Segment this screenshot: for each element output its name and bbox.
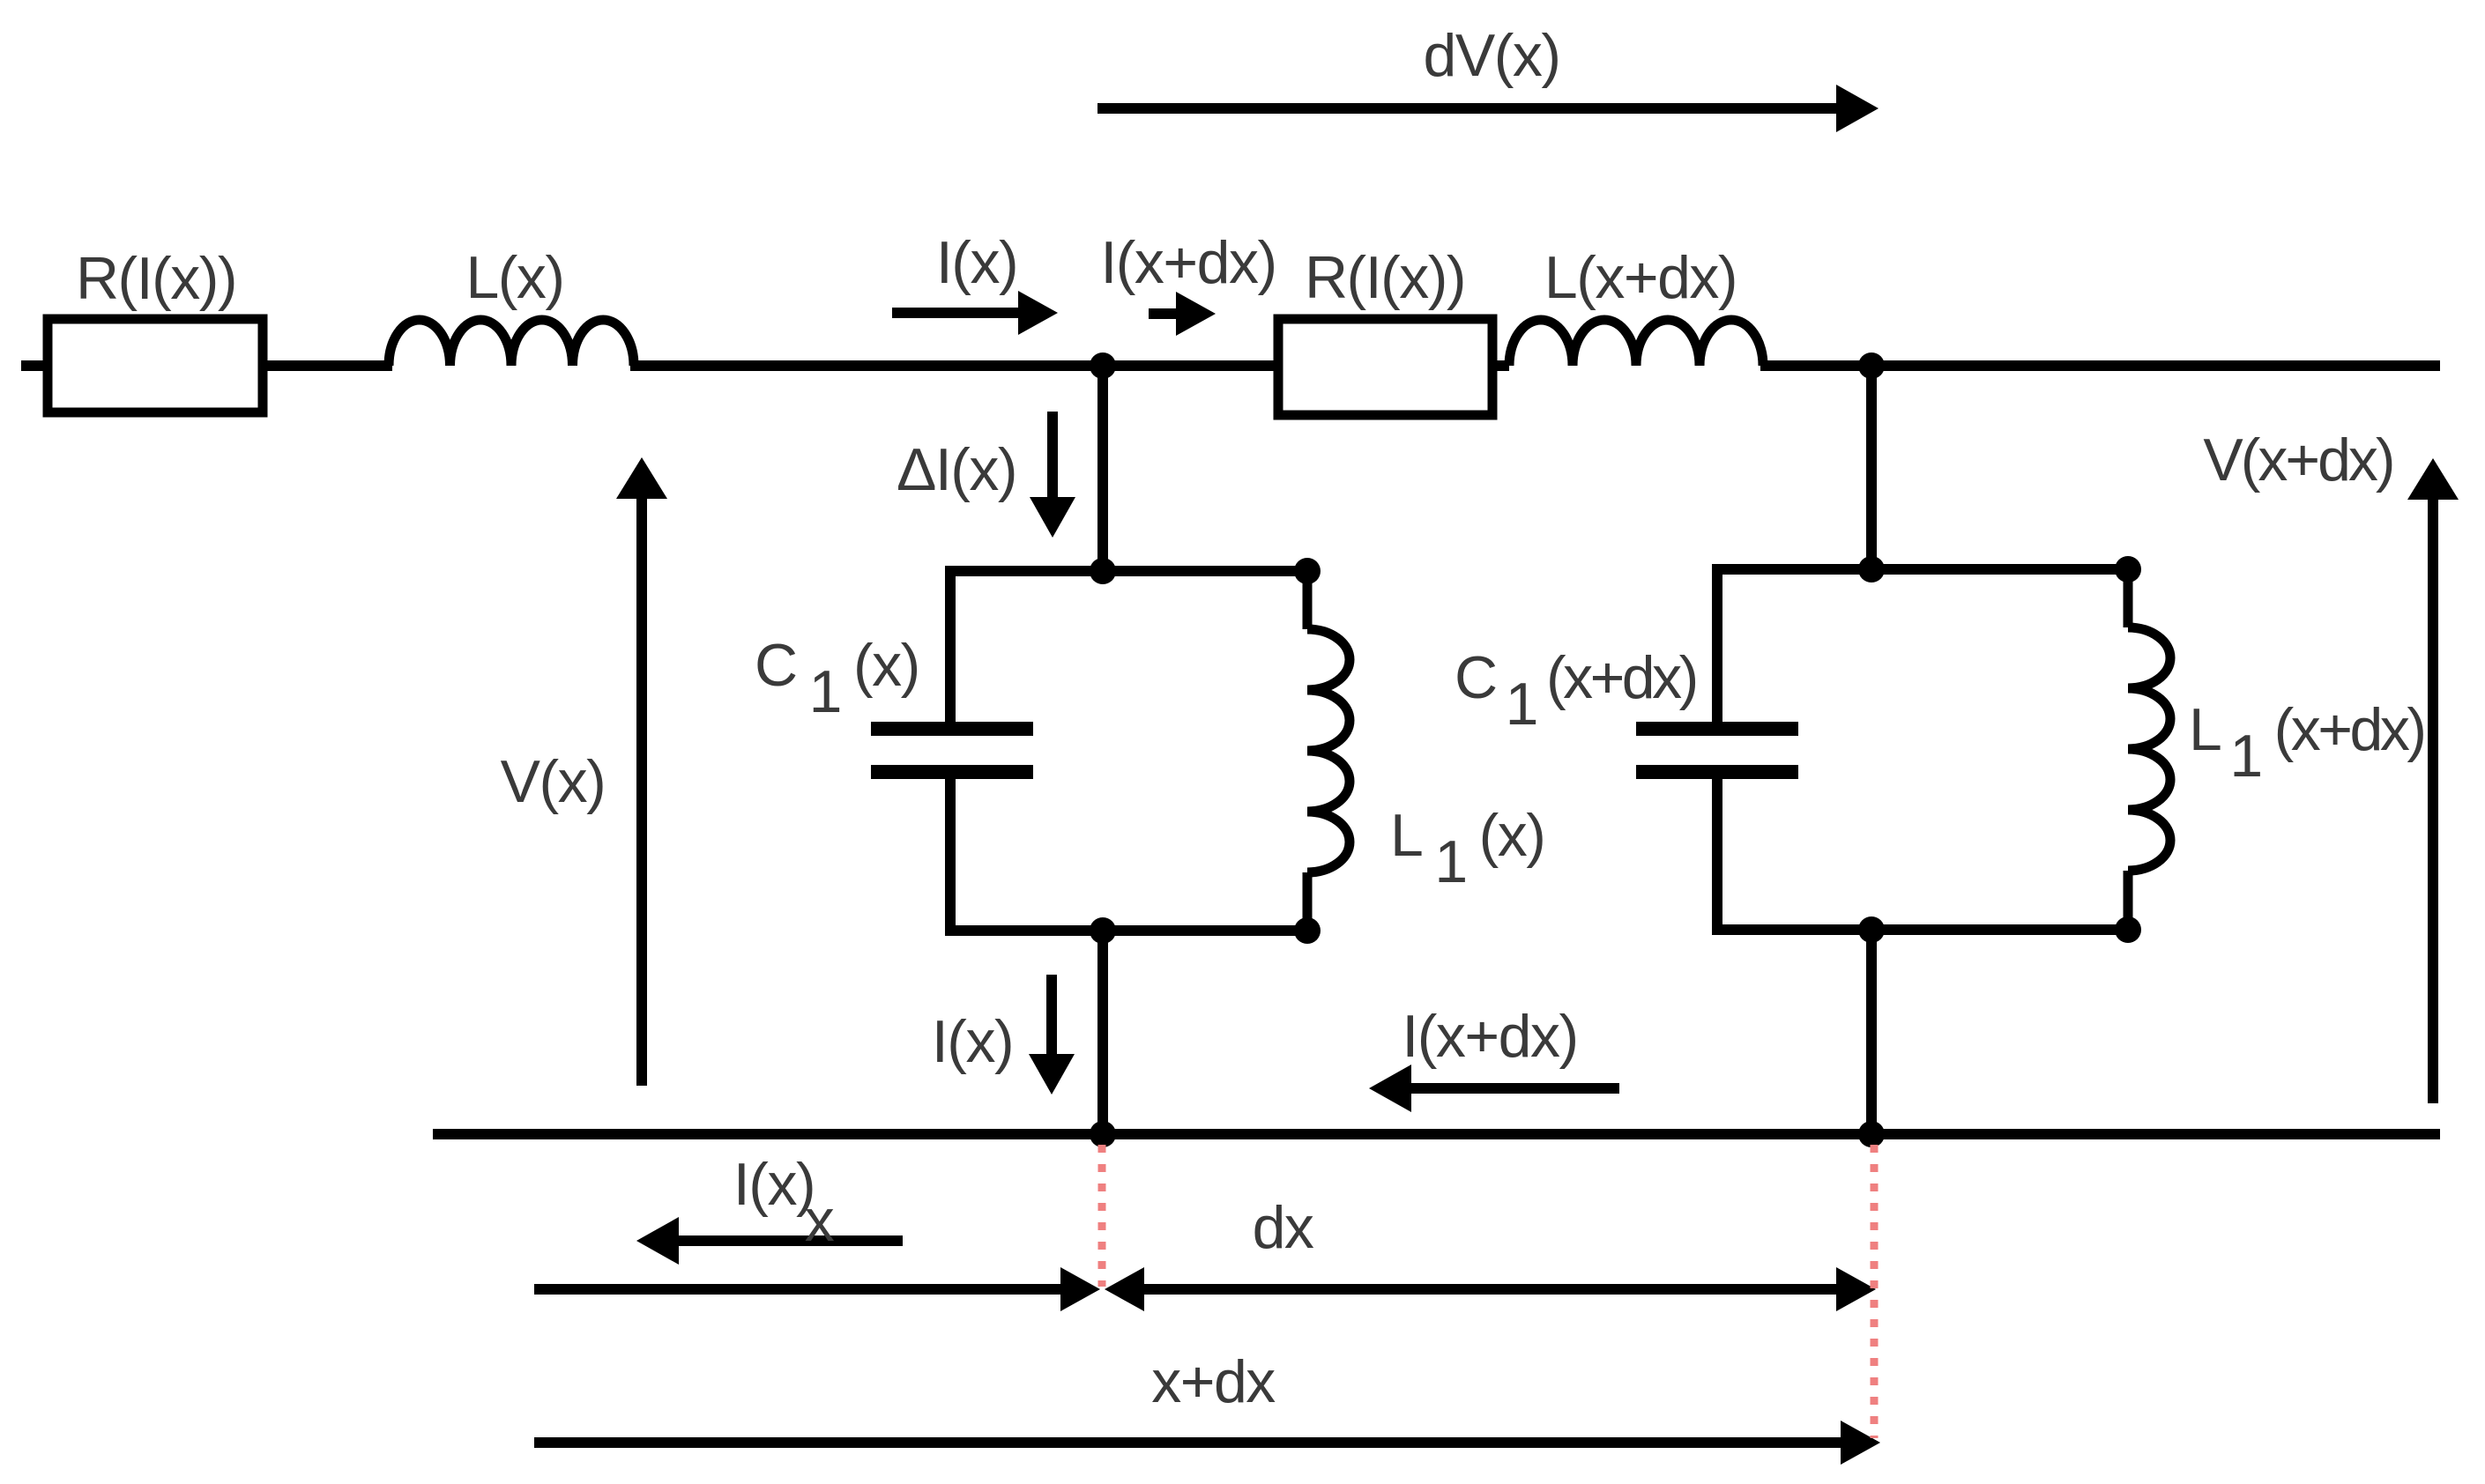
node tank1 top feed bbox=[1090, 558, 1116, 584]
arrow I(x) bottom left bbox=[636, 1217, 903, 1265]
svg-text:x: x bbox=[805, 1187, 835, 1254]
node bus junction 1 bbox=[1090, 1121, 1116, 1147]
inductor L(x) bbox=[389, 320, 634, 366]
svg-text:V(x): V(x) bbox=[501, 748, 606, 815]
svg-text:R(I(x)): R(I(x)) bbox=[76, 245, 236, 312]
arrow V(x) up bbox=[616, 457, 667, 1086]
arrow delta I(x) down bbox=[1030, 412, 1075, 538]
wire bottom bus bbox=[433, 1129, 2440, 1139]
node tank2 bottom right bbox=[2115, 916, 2141, 943]
wire top main right segment bbox=[1760, 360, 2440, 371]
inductor L1(x+dx) vertical tank2 bbox=[2128, 569, 2170, 930]
svg-text:x+dx: x+dx bbox=[1151, 1348, 1276, 1415]
wire tank1 left edge upper bbox=[945, 566, 956, 722]
svg-text:R(I(x)): R(I(x)) bbox=[1305, 244, 1465, 311]
dimension line dx bbox=[1105, 1267, 1876, 1311]
node A main wire bbox=[1090, 352, 1116, 379]
svg-text:ΔI(x): ΔI(x) bbox=[897, 436, 1016, 503]
capacitor C1(x) plates bbox=[871, 729, 1033, 772]
guide red dotted line at x bbox=[1098, 1145, 1106, 1287]
wire tank1 bottom edge bbox=[950, 925, 1307, 936]
arrow V(x+dx) up bbox=[2407, 458, 2459, 1103]
wire tank1 left edge lower bbox=[945, 778, 956, 936]
svg-text:I(x): I(x) bbox=[932, 1008, 1013, 1075]
wire tank2 bottom edge bbox=[1717, 924, 2128, 935]
resistor R(I(x)) left bbox=[48, 319, 263, 412]
wire tank2 left edge upper bbox=[1712, 564, 1722, 722]
wire tank1 bottom to bus bbox=[1097, 931, 1108, 1134]
arrow I(x+dx) top bbox=[1149, 292, 1216, 336]
wire feed node B to tank2 top bbox=[1866, 366, 1877, 569]
node tank1 bottom feed bbox=[1090, 917, 1116, 944]
node tank1 top right bbox=[1294, 558, 1321, 584]
arrow dV(x) bbox=[1097, 85, 1879, 132]
svg-text:I(x+dx): I(x+dx) bbox=[1100, 229, 1276, 296]
capacitor C1(x+dx) plates bbox=[1636, 729, 1798, 772]
dimension line x bbox=[534, 1267, 1100, 1311]
node bus junction 2 bbox=[1858, 1121, 1885, 1147]
node junction dots bbox=[1090, 352, 2141, 1147]
dimension line x+dx bbox=[534, 1421, 1880, 1465]
svg-text:dV(x): dV(x) bbox=[1424, 22, 1560, 89]
svg-text:I(x): I(x) bbox=[936, 229, 1017, 296]
svg-text:dx: dx bbox=[1253, 1194, 1314, 1261]
svg-text:V(x+dx): V(x+dx) bbox=[2203, 427, 2392, 493]
inductor L(x+dx) bbox=[1509, 320, 1763, 366]
guide red dotted line at x+dx bbox=[1871, 1145, 1879, 1438]
wire tank2 bottom to bus bbox=[1866, 930, 1877, 1134]
wire tank2 top edge bbox=[1717, 564, 2128, 575]
arrow I(x) down at tank1 bottom bbox=[1029, 975, 1075, 1094]
resistor R(I(x)) right bbox=[1278, 319, 1492, 415]
wire tank2 left edge lower bbox=[1712, 778, 1722, 935]
node B main wire bbox=[1858, 352, 1885, 379]
wire top main left segment bbox=[21, 360, 392, 371]
node tank2 top feed bbox=[1858, 556, 1885, 582]
wire tank1 top edge bbox=[950, 566, 1307, 576]
node tank2 bottom feed bbox=[1858, 916, 1885, 943]
wire feed node A to tank1 top bbox=[1097, 366, 1108, 571]
node tank2 top right bbox=[2115, 556, 2141, 582]
svg-text:L(x+dx): L(x+dx) bbox=[1544, 244, 1737, 311]
svg-text:L(x): L(x) bbox=[465, 244, 563, 311]
inductor L1(x) vertical tank1 bbox=[1307, 571, 1350, 931]
wire top main middle segment bbox=[630, 360, 1509, 371]
node tank1 bottom right bbox=[1294, 917, 1321, 944]
svg-text:I(x): I(x) bbox=[733, 1151, 815, 1218]
arrow I(x) top bbox=[892, 291, 1058, 335]
arrow I(x+dx) bottom right bbox=[1369, 1065, 1619, 1112]
svg-text:I(x+dx): I(x+dx) bbox=[1402, 1003, 1577, 1070]
